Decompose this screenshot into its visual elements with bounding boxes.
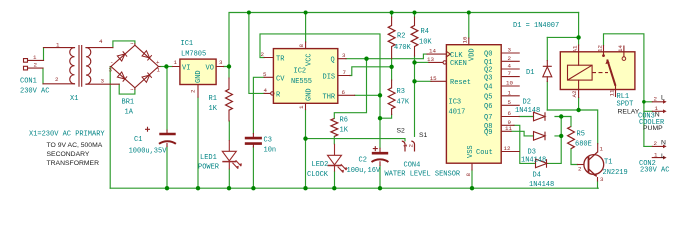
svg-text:X1=230V AC PRIMARY: X1=230V AC PRIMARY	[29, 131, 105, 139]
svg-text:2: 2	[508, 55, 512, 62]
svg-text:LED2: LED2	[312, 161, 329, 169]
svg-text:2: 2	[654, 140, 658, 147]
svg-text:S2: S2	[397, 128, 406, 135]
svg-text:3: 3	[508, 47, 512, 54]
svg-text:12: 12	[504, 145, 511, 152]
svg-text:D2: D2	[523, 99, 531, 107]
svg-text:1: 1	[508, 89, 512, 96]
svg-text:IC1: IC1	[181, 40, 194, 48]
svg-text:2: 2	[190, 89, 197, 93]
svg-text:47K: 47K	[397, 99, 410, 107]
svg-text:10K: 10K	[419, 39, 432, 47]
svg-text:TRANSFORMER: TRANSFORMER	[47, 160, 100, 167]
svg-text:8: 8	[465, 173, 472, 177]
svg-text:TR: TR	[276, 56, 285, 64]
svg-text:CLK: CLK	[450, 52, 463, 60]
svg-text:CKEN: CKEN	[450, 60, 467, 68]
svg-text:Q: Q	[331, 57, 335, 65]
svg-text:3: 3	[342, 52, 346, 59]
svg-text:SPDT: SPDT	[617, 101, 634, 109]
svg-text:1000u,35V: 1000u,35V	[129, 147, 168, 155]
svg-text:14: 14	[617, 45, 624, 52]
svg-text:GND: GND	[195, 70, 203, 83]
svg-text:Q4: Q4	[484, 84, 492, 92]
svg-text:2N2219: 2N2219	[603, 169, 628, 177]
svg-text:11: 11	[609, 89, 616, 96]
svg-text:R1: R1	[209, 95, 217, 103]
svg-text:Cout: Cout	[476, 149, 493, 157]
svg-text:1: 1	[56, 42, 60, 49]
svg-text:CLOCK: CLOCK	[307, 171, 329, 179]
svg-text:-: -	[110, 59, 113, 66]
svg-text:7: 7	[343, 69, 347, 76]
svg-text:11: 11	[505, 125, 512, 132]
svg-text:2: 2	[407, 144, 414, 148]
svg-text:Q3: Q3	[484, 74, 492, 82]
svg-text:C2: C2	[359, 157, 367, 165]
svg-text:IC3: IC3	[449, 98, 462, 106]
svg-text:Reset: Reset	[450, 79, 471, 87]
svg-text:N: N	[655, 112, 660, 119]
svg-text:Q9: Q9	[484, 129, 492, 137]
svg-text:PUMP: PUMP	[643, 125, 663, 132]
svg-text:TO 9V AC, 500MA: TO 9V AC, 500MA	[47, 142, 103, 149]
svg-text:~: ~	[130, 41, 134, 48]
svg-text:16: 16	[462, 36, 469, 43]
svg-text:T1: T1	[604, 159, 612, 167]
svg-text:Q6: Q6	[484, 103, 492, 111]
svg-text:5: 5	[508, 99, 512, 106]
svg-text:VCC: VCC	[306, 53, 314, 66]
svg-text:POWER: POWER	[198, 164, 220, 172]
svg-text:680E: 680E	[575, 141, 592, 149]
svg-text:2: 2	[34, 62, 38, 69]
svg-text:1: 1	[33, 54, 37, 61]
svg-text:D1: D1	[526, 69, 534, 77]
svg-text:L: L	[661, 153, 665, 160]
svg-text:R4: R4	[421, 28, 429, 36]
svg-text:Q5: Q5	[484, 94, 492, 102]
svg-text:13: 13	[427, 56, 434, 63]
svg-text:THR: THR	[323, 93, 336, 101]
svg-text:12: 12	[597, 45, 604, 52]
svg-text:DIS: DIS	[323, 74, 336, 82]
svg-text:230V AC: 230V AC	[20, 88, 49, 96]
svg-text:CON1: CON1	[20, 78, 37, 86]
svg-text:6: 6	[342, 89, 346, 96]
svg-text:3: 3	[219, 59, 223, 66]
svg-text:LED1: LED1	[200, 154, 217, 162]
svg-text:A1: A1	[572, 45, 579, 52]
svg-text:1N4148: 1N4148	[521, 157, 546, 165]
svg-text:2: 2	[261, 51, 265, 58]
svg-text:1N4148: 1N4148	[515, 107, 540, 115]
svg-text:1: 1	[298, 105, 305, 109]
svg-text:1N4148: 1N4148	[529, 181, 554, 189]
svg-text:R2: R2	[397, 33, 405, 41]
svg-text:4: 4	[508, 63, 512, 70]
svg-text:R5: R5	[577, 131, 585, 139]
svg-text:1: 1	[157, 67, 161, 74]
svg-text:14: 14	[429, 48, 436, 55]
svg-text:1: 1	[174, 59, 178, 66]
svg-text:D4: D4	[533, 172, 541, 180]
svg-text:1: 1	[655, 105, 659, 112]
svg-text:10: 10	[506, 80, 513, 87]
svg-text:+: +	[156, 59, 160, 66]
svg-text:IC2: IC2	[294, 68, 307, 76]
svg-text:1K: 1K	[209, 105, 218, 113]
svg-text:BR1: BR1	[122, 99, 135, 107]
svg-text:3: 3	[101, 78, 105, 85]
svg-text:~: ~	[130, 87, 134, 94]
svg-text:GND: GND	[306, 88, 314, 101]
svg-text:1K: 1K	[340, 127, 349, 135]
svg-text:VSS: VSS	[467, 145, 475, 158]
svg-text:3: 3	[600, 176, 604, 183]
svg-text:1: 1	[654, 152, 658, 159]
svg-text:470K: 470K	[394, 44, 412, 52]
svg-text:2: 2	[654, 96, 658, 103]
svg-text:N: N	[661, 140, 666, 147]
svg-text:4: 4	[264, 87, 268, 94]
svg-text:VO: VO	[206, 65, 214, 73]
svg-text:3: 3	[109, 67, 113, 74]
svg-text:VDD: VDD	[469, 48, 477, 61]
svg-text:NE555: NE555	[291, 78, 312, 86]
svg-text:LM7805: LM7805	[181, 51, 206, 59]
svg-text:C1: C1	[134, 136, 142, 144]
svg-text:CON4: CON4	[404, 162, 421, 170]
svg-text:CV: CV	[276, 75, 285, 83]
svg-text:8: 8	[298, 44, 305, 48]
svg-text:R3: R3	[397, 88, 405, 96]
svg-text:2: 2	[578, 166, 582, 173]
svg-text:6: 6	[508, 110, 512, 117]
svg-text:7: 7	[508, 70, 512, 77]
svg-text:S1: S1	[419, 132, 428, 139]
svg-text:4017: 4017	[449, 108, 466, 116]
svg-text:15: 15	[430, 75, 437, 82]
svg-text:10n: 10n	[264, 147, 277, 155]
svg-text:C3: C3	[264, 137, 272, 145]
svg-text:L: L	[661, 95, 665, 102]
svg-text:WATER LEVEL SENSOR: WATER LEVEL SENSOR	[385, 171, 461, 179]
svg-text:230V AC: 230V AC	[640, 167, 669, 175]
svg-text:4: 4	[99, 38, 103, 45]
svg-text:VI: VI	[182, 65, 190, 73]
svg-text:Q0: Q0	[484, 51, 492, 59]
svg-text:A2: A2	[571, 90, 578, 97]
svg-text:X1: X1	[70, 95, 78, 103]
svg-text:2: 2	[55, 76, 59, 83]
svg-text:1A: 1A	[125, 109, 134, 117]
svg-text:5: 5	[263, 71, 267, 78]
svg-text:D3: D3	[528, 149, 536, 157]
svg-text:1: 1	[600, 146, 604, 153]
svg-text:RELAY: RELAY	[618, 109, 640, 116]
svg-text:100u,16V: 100u,16V	[347, 167, 381, 175]
svg-text:SECONDARY: SECONDARY	[47, 151, 90, 158]
svg-text:R6: R6	[340, 117, 348, 125]
svg-text:Q7: Q7	[484, 114, 492, 122]
svg-text:D1 = 1N4007: D1 = 1N4007	[513, 22, 559, 30]
